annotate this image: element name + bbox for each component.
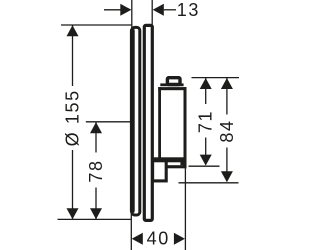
dim 71 line lower segment: [205, 138, 207, 163]
dim 40 left extension line: [130, 213, 132, 250]
valve body lower band: [166, 165, 187, 168]
svg-text:71: 71: [196, 110, 216, 133]
dim 84 bottom reference line: [179, 182, 239, 184]
cartridge cap: [167, 78, 180, 85]
dim 78 bottom arrowhead: [90, 208, 102, 219]
dim 78 line upper segment: [95, 122, 97, 152]
dim 40 right arrowhead: [174, 233, 185, 245]
valve body right edge: [184, 87, 187, 168]
valve body top edge: [158, 87, 186, 90]
dim 155 bottom arrowhead: [67, 208, 79, 219]
dim 13 left leader: [104, 9, 121, 11]
valve body left edge: [158, 87, 161, 157]
svg-text:78: 78: [86, 159, 106, 182]
svg-text:40: 40: [147, 228, 170, 248]
dim 155 line lower segment: [72, 150, 74, 219]
dim 78 top arrowhead: [90, 122, 102, 133]
valve body bottom right connector: [180, 157, 183, 165]
dim 13 right arrowhead: [153, 4, 164, 16]
dim 71 top arrowhead: [200, 78, 212, 89]
dim 13 right leader: [164, 9, 176, 11]
dim 71 bottom arrowhead: [200, 155, 212, 166]
dim 13 right extension line: [151, 0, 153, 25]
sleeve / escutcheon collar outline: [144, 25, 152, 220]
dim 155 top arrowhead: [67, 25, 79, 36]
dim 13 left extension line: [131, 0, 133, 29]
dims 71/84 top reference line: [192, 77, 240, 79]
trim plate front face thick edge: [130, 29, 135, 214]
dim 84 line upper segment: [226, 78, 228, 115]
dim 84 bottom arrowhead: [221, 171, 233, 182]
lower outlet box: [153, 160, 167, 181]
cartridge cap flange: [160, 83, 183, 86]
dim 71 line upper segment: [205, 78, 207, 104]
dim 78 line lower segment: [95, 188, 97, 220]
dim 71 bottom reference line: [189, 165, 220, 167]
svg-text:Ø 155: Ø 155: [62, 89, 82, 146]
svg-text:84: 84: [217, 119, 237, 142]
dim 40 left arrowhead: [132, 233, 143, 245]
dim 40 right extension line: [184, 168, 186, 250]
dim 155 line upper segment: [72, 25, 74, 86]
dim 84 line lower segment: [226, 148, 228, 179]
dim 13 left arrowhead: [120, 4, 131, 16]
svg-text:13: 13: [177, 0, 200, 20]
dim 84 top arrowhead: [221, 78, 233, 89]
dim 155/78 bottom reference line: [58, 218, 132, 220]
dim 155 top reference line: [61, 24, 132, 26]
dim 78 top reference line: [86, 121, 133, 123]
trim plate (side view outline): [132, 27, 140, 215]
valve body bottom band: [153, 157, 180, 162]
